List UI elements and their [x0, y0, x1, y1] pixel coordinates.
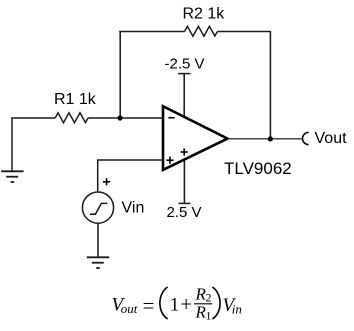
op-amp non-inverting input plus symbol: [166, 157, 173, 164]
wire: negative supply vertical into op-amp top: [183, 74, 185, 118]
label TLV9062: [224, 159, 292, 178]
ground (left): [1, 171, 23, 182]
svg-text:=: =: [143, 294, 155, 318]
ground (under Vin): [87, 257, 109, 268]
label R1 1k: [54, 91, 97, 108]
label 2.5 V: [167, 204, 202, 221]
label Vin: [122, 200, 145, 217]
node B output junction dot: [268, 136, 273, 141]
wire: output to terminal: [228, 138, 302, 140]
svg-text:+: +: [180, 292, 192, 316]
voltage source Vin circle: [82, 192, 113, 223]
wire: feedback right vertical down to output: [269, 31, 271, 139]
wire: R1 right lead to inverting input: [88, 117, 163, 119]
wire: top feedback right segment: [218, 31, 271, 33]
svg-text:2: 2: [206, 291, 212, 305]
node A junction dot (inverting input): [118, 115, 123, 120]
label -2.5 V: [165, 56, 205, 73]
equation: closing parenthesis: [212, 287, 220, 319]
wire: left vertical from R1 net down to ground: [11, 117, 13, 170]
op-amp positive supply plus symbol: [181, 148, 188, 155]
resistor R2: [185, 26, 218, 36]
svg-text:R2 1k: R2 1k: [183, 6, 226, 23]
svg-text:in: in: [232, 302, 242, 317]
wire: ground rail to R1 left lead: [11, 117, 55, 119]
wire: non-inverting input from Vin: [98, 160, 164, 192]
svg-text:TLV9062: TLV9062: [224, 159, 292, 178]
equation: Vin term: [223, 295, 242, 316]
Vin polarity plus symbol: [103, 178, 110, 185]
wire: Vin to ground: [97, 223, 99, 257]
svg-text:out: out: [121, 301, 138, 316]
op-amp U1 triangle: [163, 106, 228, 170]
svg-text:Vout: Vout: [315, 130, 348, 147]
label Vout: [315, 130, 348, 147]
equation: fraction R2 over R1: [194, 284, 212, 322]
equation: opening parenthesis: [160, 287, 168, 319]
svg-text:-2.5 V: -2.5 V: [165, 56, 205, 73]
op-amp inverting input minus symbol: [168, 117, 174, 119]
resistor R1: [55, 113, 88, 123]
voltage source waveform symbol: [90, 203, 108, 214]
equation: equals sign: [143, 294, 155, 318]
label R2 1k: [183, 6, 226, 23]
wire: feedback left vertical: [119, 32, 121, 119]
svg-text:Vin: Vin: [122, 200, 145, 217]
wire: positive supply vertical from op-amp bottom: [183, 160, 185, 203]
wire: top feedback left segment: [119, 31, 184, 33]
positive supply terminal bar: [179, 202, 191, 204]
equation: one plus: [170, 292, 192, 316]
svg-text:R1 1k: R1 1k: [54, 91, 97, 108]
equation: Vout term: [112, 295, 138, 316]
Vout open terminal arc: [303, 132, 309, 144]
svg-text:1: 1: [206, 309, 212, 323]
svg-text:1: 1: [170, 295, 180, 316]
svg-text:2.5 V: 2.5 V: [167, 204, 202, 221]
negative supply terminal bar: [178, 73, 190, 75]
